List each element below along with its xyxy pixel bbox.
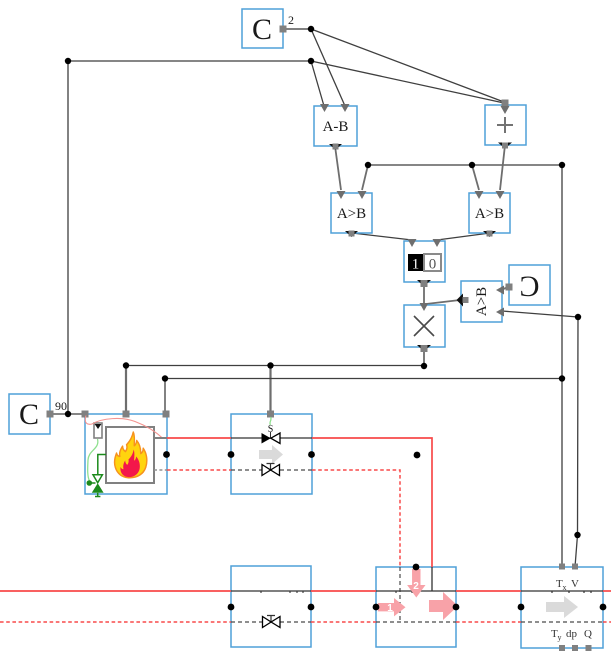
node sensor bus mid (469, 162, 475, 168)
wire control bus B to boiler port 3 (164, 379, 166, 415)
sensor block body (521, 567, 603, 648)
wire A-B output to comparator U3 input A (335, 146, 341, 190)
svg-text:y: y (558, 633, 562, 642)
wire control bus B horizontal (165, 378, 562, 380)
mixer outlet arrow big (429, 592, 458, 620)
pipe dashed black inside mixer (376, 621, 456, 623)
subtract block symbol (320, 104, 350, 150)
svg-text:V: V (571, 578, 579, 590)
boiler return stub dashed (154, 469, 167, 471)
pipe red supply from valve to riser (312, 438, 432, 567)
valve block body (231, 414, 312, 494)
constant C1 block body (242, 9, 283, 48)
pipe dashed drop inside mixer (399, 567, 401, 622)
wire C90 to boiler (50, 413, 85, 415)
sensor line ticks (552, 591, 591, 593)
comparator U5 block body (461, 281, 502, 322)
svg-text:C: C (252, 13, 272, 46)
node mixer left (373, 604, 380, 611)
mixer line ticks (396, 591, 412, 593)
svg-text:C: C (19, 398, 39, 431)
valve V1 symbol (262, 433, 281, 444)
sensor labels bottom (551, 628, 592, 642)
multiplier block symbol (414, 303, 434, 352)
wire junction B to plus input (311, 61, 504, 103)
comparator U3 symbol (337, 191, 367, 237)
boiler fuel line (98, 455, 106, 475)
mixer arrow 2 down (407, 569, 425, 598)
wire multiplier output down (423, 347, 425, 366)
wire left vertical bus (67, 61, 69, 414)
boiler gas valve (87, 475, 104, 497)
wire left bus horizontal (68, 60, 311, 62)
wire flow vertical bus from sensor (575, 317, 578, 567)
pipe dashed red main return left (0, 621, 231, 623)
switch block symbol (408, 239, 442, 287)
pipe red supply from boiler to valve (167, 437, 231, 439)
wire constant C3 to comparator U5 input 1 (501, 287, 508, 290)
svg-text:A-B: A-B (323, 119, 349, 135)
pipe red main flow line mid2 (456, 590, 521, 592)
valve V3 symbol (263, 617, 281, 628)
wire junction A to A-B input B (311, 29, 345, 106)
node boiler outlet (163, 451, 170, 458)
pipe red main flow line mid1 (311, 590, 376, 592)
node sensor bus B junction (559, 375, 565, 381)
svg-text:A>B: A>B (337, 206, 366, 222)
pipe dashed red main return right (603, 621, 611, 623)
node free hydraulic (414, 452, 421, 459)
svg-text:x: x (563, 583, 567, 592)
boiler flame inner (120, 450, 139, 478)
sensor gray arrow (546, 596, 578, 618)
node valve block right (308, 451, 315, 458)
svg-text:Q: Q (584, 628, 592, 640)
pipe red main flow line right (603, 590, 611, 592)
node bottom valve right (308, 604, 315, 611)
node flow bus top (575, 314, 581, 320)
svg-text:0: 0 (429, 257, 437, 273)
boiler outlet stub (154, 437, 167, 439)
constant C3 symbol mirrored (506, 270, 540, 303)
comparator U4 symbol (475, 191, 505, 237)
constant C2 block body (9, 394, 50, 434)
wire right vertical bus from sensor (561, 165, 563, 567)
mixer block body (376, 567, 456, 647)
sensor ports (559, 564, 592, 652)
valve V2 handle (267, 464, 275, 470)
node multiplier out corner (421, 363, 427, 369)
constant C1 symbol and port (252, 13, 294, 46)
pipe dashed red main return mid2 (456, 621, 521, 623)
boiler block body (85, 414, 167, 494)
boiler igniter curve (88, 439, 98, 481)
boiler top ports (82, 411, 170, 418)
wire C2 output to junction (283, 28, 311, 30)
wire switch output to multiplier input (423, 282, 425, 304)
boiler flame outer (115, 432, 147, 478)
wire comparator U4 output to switch input B (437, 233, 490, 240)
svg-text:dp: dp (566, 628, 578, 640)
node bus B boiler (162, 375, 168, 381)
constant C3 block body (509, 265, 550, 305)
wire flow bus to comparator U5 input 2 (502, 311, 578, 317)
wire control bus A horizontal (126, 365, 424, 367)
sensor labels top (556, 578, 579, 592)
node mixer right (453, 604, 460, 611)
subtract block body (314, 106, 357, 146)
node flow bus bend (574, 532, 580, 538)
adder block body (485, 105, 526, 145)
pipe dashed black inside bottom valve block (231, 621, 311, 623)
valve V3 handle (267, 616, 275, 622)
svg-text:2: 2 (288, 13, 294, 27)
node corner left bus (65, 58, 71, 64)
bottom valve block body (231, 566, 311, 647)
wire sensor bus to comparator U3 input B (362, 165, 368, 190)
wire sensor bus horizontal (368, 164, 562, 166)
pipe black flow inside sensor (521, 590, 603, 592)
node sensor right (600, 604, 607, 611)
mixer arrow 1 right (378, 598, 406, 616)
wire junction A to plus input (311, 29, 504, 102)
comparator U4 block body (469, 193, 510, 233)
node sensor bus corner (559, 162, 565, 168)
node bus A boiler (123, 362, 129, 368)
wire comparator U5 output to multiplier input (426, 300, 460, 304)
pipe dashed return from boiler to valve (167, 469, 231, 471)
svg-text:90: 90 (55, 399, 67, 413)
node junction 90 wire (65, 411, 71, 417)
node bus A valve (267, 362, 273, 368)
valve V1 stem (270, 432, 272, 438)
pipe black flow inside bottom valve block (231, 590, 311, 592)
valve block top port (267, 411, 274, 418)
node sensor left (518, 604, 525, 611)
constant C2 symbol and port (19, 398, 67, 431)
node mixer top (413, 564, 420, 571)
svg-text:C: C (519, 270, 539, 303)
pipe dashed return from valve to drop (312, 470, 400, 567)
valve V1 solenoid squiggle (270, 417, 271, 425)
node junction left bus (308, 58, 314, 64)
pipe dashed black inside sensor (521, 621, 603, 623)
wire control bus A to boiler port 2 (125, 366, 127, 415)
wire sensor bus to comparator U4 input A (472, 165, 479, 190)
pipe black flow inside mixer (376, 590, 456, 592)
bottom valve line ticks (261, 591, 303, 593)
svg-text:2: 2 (413, 581, 419, 592)
boiler setpoint curve (85, 416, 163, 439)
pipe dashed black inside valve block (231, 469, 312, 471)
node sensor bus left end (365, 162, 371, 168)
pipe black riser inside mixer (431, 567, 433, 591)
node bottom valve left (228, 604, 235, 611)
adder block symbol (497, 100, 513, 149)
svg-text:A>B: A>B (474, 287, 490, 316)
wire plus output to comparator U4 input B (500, 145, 505, 190)
comparator U3 block body (331, 193, 372, 233)
pipe dashed red main return mid1 (311, 621, 376, 623)
svg-text:1: 1 (387, 603, 393, 614)
boiler combustion chamber (106, 427, 154, 483)
wire comparator U3 output to switch input A (352, 233, 412, 240)
pipe black supply inside valve block (231, 437, 312, 439)
svg-text:A>B: A>B (475, 206, 504, 222)
wire control bus A to valve block port (269, 366, 271, 415)
valve V2 symbol (262, 465, 280, 476)
comparator U5 symbol rotated (457, 286, 505, 317)
wire junction B to A-B input A (311, 61, 324, 106)
node junction C2 out (308, 26, 314, 32)
switch block body (404, 241, 445, 282)
boiler thermostat (94, 423, 102, 438)
multiplier block body (404, 305, 445, 347)
valve block gray arrow (259, 445, 283, 464)
svg-text:1: 1 (412, 257, 420, 273)
pipe red main flow line left (0, 590, 231, 592)
node valve block left (228, 451, 235, 458)
